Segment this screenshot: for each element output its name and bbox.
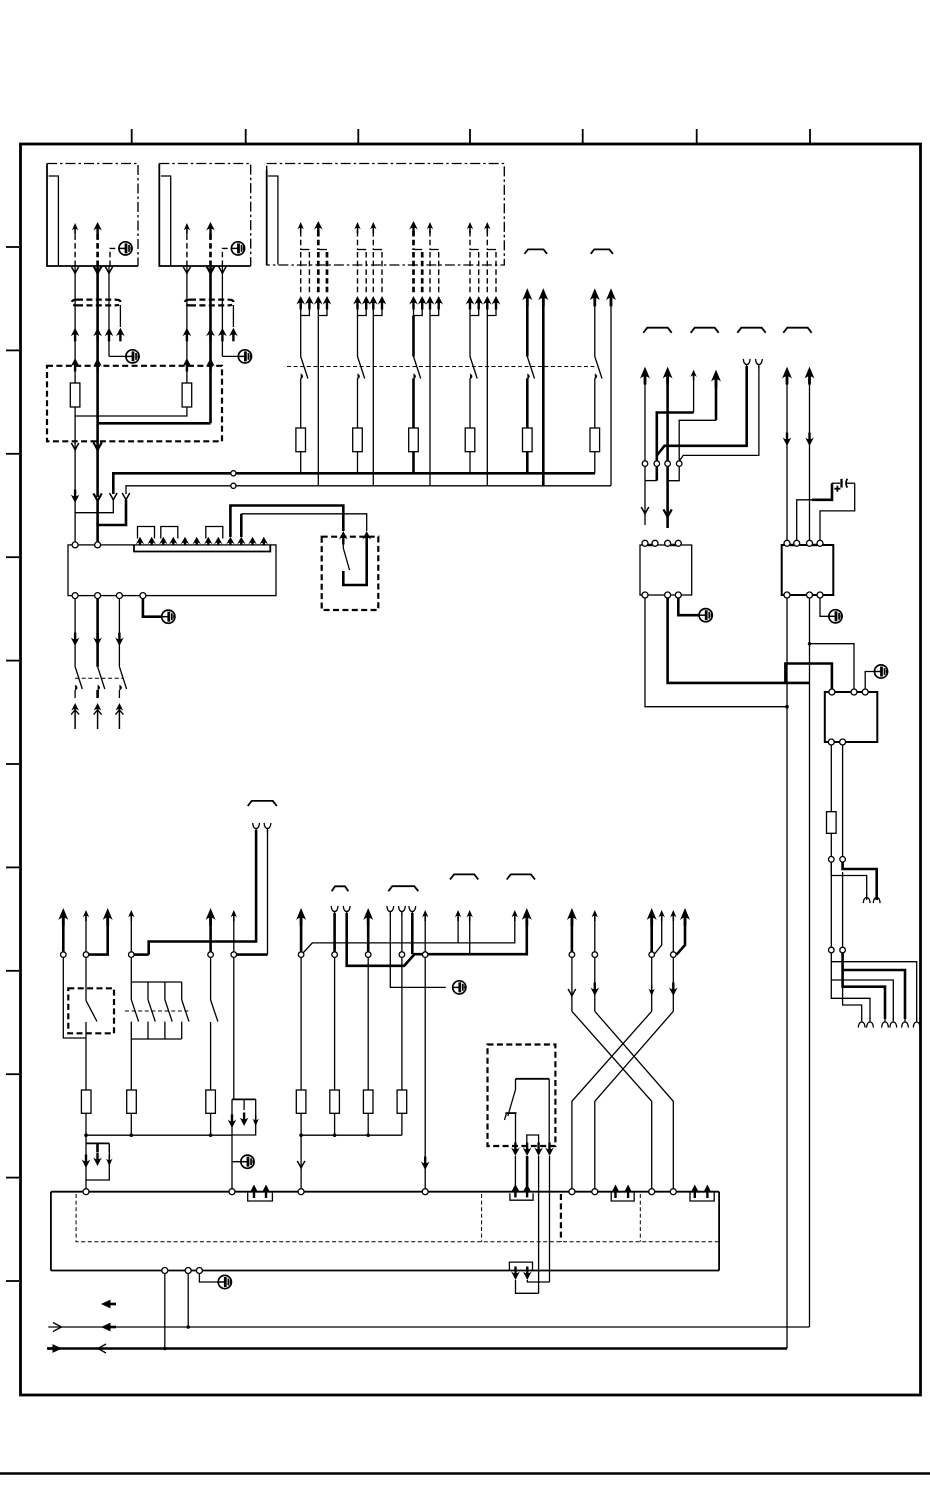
Y wire Y6b <box>399 906 406 952</box>
J2 bottom pin 2 <box>185 1268 191 1274</box>
wire X3 (terminal arrows right) <box>647 908 657 952</box>
left tick 7 <box>6 866 19 868</box>
junction dot <box>785 705 789 709</box>
connector capsule C2 <box>185 300 234 306</box>
C2 pin arrows <box>183 328 238 342</box>
connector hat over pair P5 <box>525 249 548 253</box>
RL5 outline <box>488 1045 556 1147</box>
wire F2 through <box>186 360 188 383</box>
U2 inner connector rect <box>161 176 171 266</box>
left tick 8 <box>6 970 19 972</box>
SWB1 lever <box>86 988 97 1033</box>
harness line 1 (thin) <box>48 1326 809 1328</box>
wire SWB1 to fuse F10 <box>85 1033 87 1090</box>
U3 wire pair P1a (thin dashed + fork) <box>296 222 313 316</box>
ground G4 <box>238 350 251 363</box>
left tick 1 <box>6 246 19 248</box>
RL2 top tabs <box>648 544 677 547</box>
Y tip e1 <box>863 894 870 904</box>
wire w3 (small arrow, to thick elbow) <box>690 370 696 413</box>
fuse outputs join (thin) <box>75 407 187 497</box>
Y wire B1 (thick) <box>149 823 260 955</box>
box U1 outline <box>47 164 138 267</box>
J2 outline <box>51 1192 719 1271</box>
RL2 out ground wire (thick) <box>678 598 699 615</box>
connector capsule C1 <box>72 300 121 306</box>
wire P1b to bus B <box>317 316 319 486</box>
terminal block T1 (3 prong) <box>82 1143 113 1180</box>
switch bank SWB2 top bar <box>131 957 181 982</box>
junction dot line1 <box>186 1325 190 1329</box>
w3 join into w1 <box>645 480 657 482</box>
wire F16 to bus <box>367 1113 369 1135</box>
top tick 7 <box>809 129 811 143</box>
wire U1b to fusebox (thick) <box>93 266 102 372</box>
wire U1 ground branch <box>105 266 126 356</box>
U3 wire pair P3a fork (thick) <box>409 221 427 316</box>
splice pin c1 <box>642 461 648 467</box>
splice pin m10 <box>422 952 428 958</box>
wire X4b jog (thick) <box>677 908 691 955</box>
connector hat over pair P6 <box>591 249 613 253</box>
wire U1b inside box (thick) <box>96 360 99 423</box>
wire x2 descent <box>590 957 599 1011</box>
splice pin m5 <box>208 952 214 958</box>
junction dot branch <box>808 642 811 645</box>
switch S5 (thick) w/ big arrow + fuse F7 <box>522 288 534 473</box>
wire X2 (thin arrow) <box>592 910 598 952</box>
link B1 to m4 <box>134 953 149 956</box>
ground G1 <box>119 242 132 255</box>
switch SWB1 (dashed box) <box>68 988 114 1033</box>
J1 top pin a <box>72 542 78 548</box>
W5 stub joins <box>516 1280 550 1293</box>
RL5 bump <box>527 1135 539 1146</box>
bus line A link down <box>75 500 113 545</box>
junction dot line2 <box>163 1347 167 1351</box>
J1 top pin arrows (12) <box>136 537 268 546</box>
splice pin d4 <box>840 947 846 953</box>
wire F11 to bus <box>130 1113 132 1135</box>
Y wire Y5a <box>331 906 338 952</box>
RL4 ground wire <box>865 672 874 690</box>
J2 bottom pin 1 <box>162 1268 168 1274</box>
left tick 4 <box>6 556 19 558</box>
Y wire B2 (thin) <box>264 823 271 955</box>
branch to Y pair (thin) <box>831 862 866 900</box>
terminal block T2 (3 prong) <box>228 1099 259 1135</box>
J2 dashed partition v4 <box>639 1194 641 1242</box>
wire X3b jog <box>654 910 665 955</box>
ground G10 <box>162 610 175 623</box>
fuse F14 <box>330 1090 340 1113</box>
wire P2b to bus B <box>372 316 374 486</box>
Y wire Y5b (thick route right) <box>343 906 526 966</box>
J1 pin bump 1 <box>138 527 155 539</box>
fan branch b1 <box>831 953 916 1019</box>
RL5 out wire 4 (into box) <box>549 1156 551 1282</box>
fan branch b3 <box>831 962 893 1019</box>
wire J1 pin9 to relay RL1 (thick) <box>230 506 343 538</box>
Y wire Y6a (to ground) <box>387 906 446 988</box>
U1 ground wire <box>110 248 117 266</box>
splice pin c4 <box>676 461 682 467</box>
J2 window W2 + RL5 pin arrows <box>510 1184 533 1200</box>
top tick 6 <box>696 129 698 143</box>
wire x3 descent <box>649 957 655 1011</box>
wire T2 down + ground tap <box>232 1135 241 1189</box>
wire m368 to fuse F16 <box>367 957 369 1090</box>
RL3 top tabs <box>790 544 818 547</box>
wire w2 (thick tall) <box>663 367 673 528</box>
splice pin d2 <box>840 857 846 863</box>
U1 inner connector rect <box>49 176 59 266</box>
J1 pin bump 3 <box>206 527 223 539</box>
U2 wire a (dashed thin) <box>184 223 190 266</box>
Y tip e2 <box>873 894 880 904</box>
arrow tap H7a <box>455 910 461 943</box>
bus junction dots <box>84 1133 212 1137</box>
J1 ground wire (thick) <box>143 599 162 617</box>
U3 wire pair P4b fork <box>483 222 501 316</box>
W5 out arrows <box>511 1267 532 1281</box>
RL2 out thin to right <box>645 598 787 707</box>
wire m9 to fuse F15 <box>401 957 403 1090</box>
J1 bottom pin 3 <box>116 593 122 599</box>
line1 left filled arrow <box>101 1323 116 1332</box>
RL4 bottom pins <box>828 739 845 745</box>
RL5 out wire 1 <box>514 1156 516 1186</box>
thick arrow under hat H8b <box>522 908 532 926</box>
wire M4 (thin arrow) <box>128 910 134 952</box>
wire m7 to fuse F13 <box>300 957 302 1090</box>
wire J2 pin2 down <box>187 1274 189 1328</box>
fuse F1 <box>70 383 80 407</box>
wire RL4 out-a <box>830 745 832 812</box>
ground G8 <box>241 1155 254 1168</box>
bus dot m368 <box>366 1133 370 1137</box>
J1 bottom pin 1 <box>72 593 78 599</box>
wire M8 arrow over splice <box>422 910 428 952</box>
RL5 lever <box>505 1079 517 1120</box>
SWB2 link dashed <box>125 1010 190 1012</box>
switch SWB3 <box>211 957 218 1090</box>
bus line B (thin) <box>126 486 611 494</box>
wire w6 <box>805 367 815 542</box>
J2 window W3 + pin arrows <box>611 1185 634 1202</box>
RL3 bottom pins <box>784 592 823 598</box>
wire w1 (thin tall) <box>640 367 650 525</box>
fuse F15 <box>397 1090 407 1113</box>
battery lead 1 <box>797 483 832 542</box>
Y wire thick (to connector splice) <box>657 359 750 456</box>
J2 top pin circles <box>83 1189 676 1195</box>
w3 thick elbow <box>657 413 694 481</box>
wire U2b inside box (thick) <box>209 360 212 423</box>
wire x4 descent <box>669 957 678 1011</box>
ground G11 <box>874 665 887 678</box>
left tick 10 <box>6 1177 19 1179</box>
RL5 out wire 2 (thick) <box>526 1156 529 1186</box>
bus line B link down (thick) <box>98 500 126 545</box>
wire M5 (thick arrow + switch) <box>206 908 216 952</box>
U1 wire b (dashed thick) <box>93 222 102 266</box>
line2 left chevron <box>98 1344 106 1353</box>
wire P5b to bus B <box>538 288 548 486</box>
thick outputs join <box>98 423 211 497</box>
wire below fusebox b <box>93 442 101 525</box>
box U2 outline <box>159 164 250 267</box>
wire U1a to fusebox <box>71 266 80 372</box>
J1 bottom pin 4 <box>140 593 146 599</box>
RL5 wire b <box>548 1079 550 1146</box>
battery lead 2 <box>820 483 855 542</box>
splice pin x2 <box>592 952 598 958</box>
U1 wire a (dashed thin) <box>72 223 78 266</box>
left tick 9 <box>6 1073 19 1075</box>
RL4 outline <box>825 692 878 742</box>
w4 elbow to connector <box>668 420 716 480</box>
ground G3 <box>126 350 139 363</box>
J1 output switch SW-b (thick) <box>93 599 105 729</box>
left tick 2 <box>6 349 19 351</box>
ground G7 <box>453 981 466 994</box>
branch to Y pair (thick) <box>843 862 877 900</box>
SWB2 gang stubs/levers <box>131 982 189 1022</box>
J1 inner sub-edge <box>134 545 270 552</box>
wire F13 down to box <box>297 1113 305 1188</box>
splice pin d1 <box>829 857 835 863</box>
Y wire Y6c (thick tee) <box>409 906 416 954</box>
arrow tap H7b <box>467 910 473 954</box>
fuse F2 <box>182 383 192 407</box>
switch S3 (thick) w/ fuse F5 <box>409 316 421 474</box>
wire M-368 (thick arrow + fuse) <box>363 908 373 952</box>
junction connector on bus A <box>231 471 236 476</box>
wire w5 <box>782 367 792 542</box>
left tick 5 <box>6 660 19 662</box>
RL5 out wire 3 (into box) <box>538 1156 540 1293</box>
splice pin d3 <box>829 947 835 953</box>
line1 right-arrow <box>53 1323 62 1332</box>
RL4 top pins <box>829 689 868 695</box>
splice pin x4 <box>671 952 677 958</box>
SW link dashed <box>75 677 123 679</box>
long wire RL3-b down <box>809 598 811 1327</box>
wire T1 to J2 pin <box>85 1180 87 1189</box>
U2 wire b (dashed thick) <box>206 222 215 266</box>
splice pin x1 <box>569 952 575 958</box>
link dashed line (mechanical) <box>287 366 594 368</box>
fan branch b4 (thick) <box>843 970 885 1019</box>
splice pin m4 <box>129 952 135 958</box>
J2 dashed partition v3 <box>560 1194 562 1242</box>
switch S1 w/ wire + fuse F3 <box>296 316 308 474</box>
battery BT1 <box>832 479 855 492</box>
U3 wire pair P2b fork <box>369 222 387 316</box>
wire F1 through <box>74 360 76 383</box>
wire SWB2 to fuse F11 <box>130 1039 132 1090</box>
RL1 outline <box>322 537 379 610</box>
left tick 11 <box>6 1280 19 1282</box>
C2 drop wire from capsule end <box>232 305 234 327</box>
harness line 2 (thick) <box>48 1347 787 1350</box>
RL2 top pins <box>642 540 681 546</box>
splice pin c3 <box>665 461 671 467</box>
top tick 5 <box>582 129 584 143</box>
box U3 outline <box>267 164 505 266</box>
switch S2 w/ wire + fuse F4 <box>353 316 365 474</box>
ground G2 <box>231 242 244 255</box>
splice pin m8 <box>332 952 338 958</box>
connector hat H8 <box>507 874 535 879</box>
RL1 pin arrows <box>339 531 371 545</box>
riser from m7 to long link <box>304 917 515 953</box>
thick link to RL4 <box>785 664 832 691</box>
wire m6 down to T2 <box>233 957 235 1099</box>
bus line A (thick) <box>113 473 595 494</box>
J1 top pin b <box>95 542 101 548</box>
splice pin c2 <box>654 461 660 467</box>
top tick 3 <box>357 129 359 143</box>
RL2 bottom pins <box>642 592 681 598</box>
U2 ground wire <box>222 248 229 266</box>
U3 wire pair P4a fork <box>466 222 484 316</box>
RL5 contact bar (thick) <box>516 1078 550 1080</box>
wire X1 (thick arrow) <box>567 908 577 952</box>
left bus line <box>86 1134 232 1136</box>
J1 pin bump 2 <box>161 527 178 539</box>
wire m8 to fuse F14 <box>334 957 336 1090</box>
connector hat MB <box>248 801 277 806</box>
wire F12 to bus <box>210 1113 212 1135</box>
fuse F13 <box>296 1090 306 1113</box>
splice pin m2 <box>83 952 89 958</box>
left tick 3 <box>6 453 19 455</box>
J2 window W4 + pin arrows <box>690 1185 714 1202</box>
top tick 1 <box>131 129 133 143</box>
fuse box outline <box>47 366 222 442</box>
wire RL4 out-b <box>842 745 844 857</box>
wire M7 (thick arrow + fuse F13) <box>296 908 306 952</box>
wire M2 (thin arrow) <box>83 910 89 952</box>
wire J2 pin1 down <box>164 1274 166 1349</box>
connector hat H7 <box>450 874 478 879</box>
U3 inner connector rect <box>268 176 278 265</box>
ground G9 <box>218 1275 231 1288</box>
U3 wire pair P2a fork <box>353 222 371 316</box>
top tick 4 <box>469 129 471 143</box>
RL1 switch lever <box>343 537 349 570</box>
fuse F10 <box>81 1090 91 1113</box>
fuse F12 <box>206 1090 216 1113</box>
splice pin m368 <box>365 952 371 958</box>
J1 bottom pin 2 <box>95 593 101 599</box>
fan branch b2 (thick) <box>843 953 905 1019</box>
wire w4 (thick arrow) <box>711 370 721 421</box>
wire M1 (thick arrow) <box>58 908 68 952</box>
wire M6 (thin arrow to T2) <box>231 910 237 952</box>
splice pin m1 <box>61 952 67 958</box>
branch to RL4 <box>810 644 855 690</box>
ground G5 <box>699 609 712 622</box>
left tick 6 <box>6 763 19 765</box>
wire P4b to bus B <box>486 316 488 486</box>
J2 dashed partition L <box>76 1194 718 1242</box>
wire m2 through SWB1 down <box>85 957 87 988</box>
connector hat R3 <box>737 328 765 333</box>
wire F14 to bus <box>334 1113 336 1135</box>
RL5 wire a <box>515 1113 517 1146</box>
wire U2 ground branch <box>219 266 239 356</box>
J2 bottom window W5 <box>509 1262 532 1270</box>
wire U2a to fusebox <box>183 266 192 372</box>
RL2 out thick route <box>668 598 810 683</box>
J2 dashed partition v2 <box>481 1194 483 1242</box>
fuse F11 <box>127 1090 137 1113</box>
C1 pin arrows <box>71 328 125 342</box>
bus line A end chevron <box>110 493 118 500</box>
RL2 outline <box>640 545 692 595</box>
floating arrow glyph <box>101 1300 116 1309</box>
splice pin x3 <box>649 952 655 958</box>
connector hat H5 <box>332 886 349 891</box>
right bus dots <box>299 1133 336 1137</box>
switch S6 w/ big arrow + fuse F8 <box>590 288 602 473</box>
right bus line <box>301 1134 402 1136</box>
wire P3b to bus B <box>429 316 431 486</box>
wire F9 down <box>830 833 832 857</box>
wire F15 to bus <box>401 1113 403 1135</box>
long wire RL3-a down <box>786 598 788 1349</box>
U3 wire pair P3b fork <box>426 222 444 316</box>
wire m1 branch join <box>63 957 86 1038</box>
connector hat R2 <box>691 328 719 333</box>
splice pin m6 <box>231 952 237 958</box>
line2 right filled arrow <box>47 1344 62 1353</box>
J1 outline <box>68 545 276 596</box>
ground G6 <box>829 610 842 623</box>
connector hat R1 <box>643 328 671 333</box>
fuse F16 <box>363 1090 373 1113</box>
RL5 out arrows <box>511 1143 554 1157</box>
RL3 outline <box>782 545 834 595</box>
top tick 2 <box>245 129 247 143</box>
RL3 ground wire <box>820 598 829 616</box>
connector hat H6 <box>388 886 418 891</box>
SWB2 bottom bar <box>131 1022 181 1039</box>
J2 bottom pin 3 <box>196 1268 202 1274</box>
J1 output switch SW-a <box>71 599 83 729</box>
J2 ground tap <box>199 1274 218 1283</box>
fan Y tips <box>858 1018 920 1028</box>
RL3 top pins <box>784 540 823 546</box>
splice pin m9 <box>399 952 405 958</box>
J1 output switch SW-c <box>115 599 127 729</box>
fuse F9 <box>827 812 837 834</box>
fan branch b5 <box>831 980 870 1019</box>
junction connector on bus B <box>231 483 236 488</box>
RL1 contact U (thick) <box>343 537 366 585</box>
thick link m6 to Y-B <box>237 953 268 956</box>
wire d2 down <box>842 872 844 948</box>
wire M3 (thick arrow, jog to m2) <box>89 908 113 955</box>
link arrow under hat H8a <box>512 910 518 921</box>
wire F10 to bus <box>85 1113 87 1143</box>
J2 window W1 + pin arrows <box>248 1185 273 1202</box>
splice pin m7 <box>298 952 304 958</box>
C1 drop wire from capsule end <box>119 305 121 327</box>
